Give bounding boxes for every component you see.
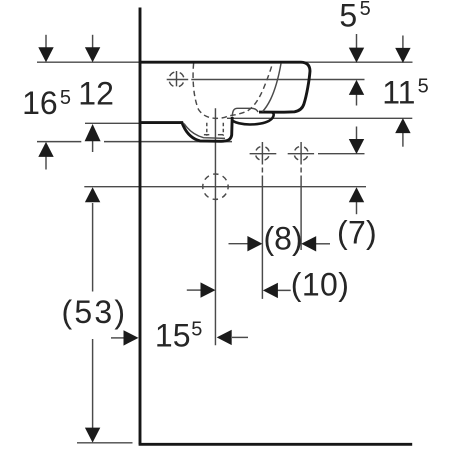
svg-text:115: 115	[382, 75, 429, 111]
svg-text:(7): (7)	[337, 214, 377, 250]
svg-text:55: 55	[339, 0, 370, 33]
svg-text:155: 155	[155, 317, 203, 353]
svg-text:12: 12	[78, 76, 114, 112]
svg-text:(8): (8)	[264, 221, 303, 257]
svg-text:(10): (10)	[291, 267, 350, 303]
svg-text:(53): (53)	[62, 294, 128, 330]
svg-text:165: 165	[22, 85, 71, 121]
